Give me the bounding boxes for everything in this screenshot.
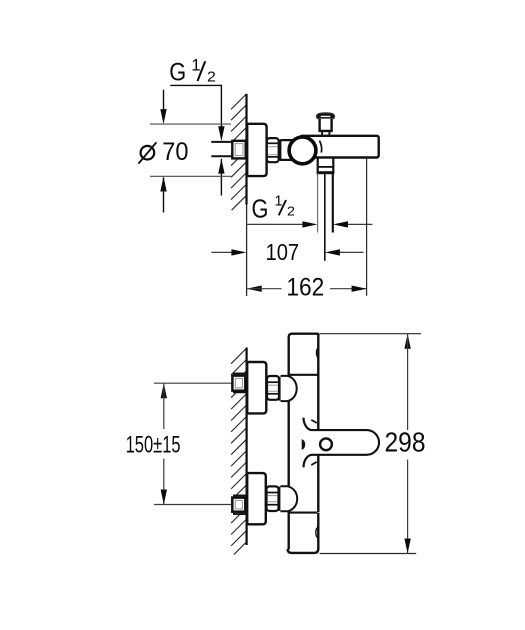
- lower block right edge: [288, 513, 319, 553]
- dimension line G1/2 (hose) right part with left arrow: [333, 221, 372, 227]
- top edge with rounded corners: [289, 334, 319, 338]
- extension line 150±15 lower (supply centerline): [154, 504, 232, 506]
- wall hatching (top view): [231, 94, 247, 210]
- lower union bell cover (bottom view): [278, 486, 297, 511]
- dimension line 162 with inside arrows: [247, 286, 367, 292]
- dimension 298 vertical with inside arrows: [404, 334, 410, 554]
- wall hatching (bottom view): [231, 348, 247, 554]
- right edge upper (to spout top fillet): [317, 334, 319, 430]
- washer between nut and body (top view): [279, 140, 281, 161]
- dimension line G1/2 (hose) left part with right arrow: [247, 221, 318, 227]
- diverter knob cap (top view): [316, 113, 334, 119]
- dimension line 107 left arrow: [211, 249, 246, 255]
- svg-text:107: 107: [266, 239, 300, 265]
- upper escutcheon flange (bottom view): [247, 362, 266, 413]
- label G1/2 (top) text: [169, 55, 216, 86]
- dimension G1/2 (top) leader: horizontal line and right vertical with down arrow: [170, 85, 224, 141]
- extension line from hose nut left edge: [317, 173, 319, 232]
- lower union nut (bottom view): [267, 486, 279, 511]
- upper wall socket square (bottom view): [232, 374, 246, 393]
- svg-text:150±15: 150±15: [126, 431, 181, 458]
- spout mouth circle (bottom view): [320, 438, 332, 450]
- dimension Ø70 down-arrow (shared vertical): [160, 90, 166, 124]
- dimension Ø70 up-arrow: [160, 177, 166, 213]
- shower hose nut below body (top view): [318, 158, 334, 174]
- escutcheon flange (top view): [247, 124, 266, 176]
- svg-text:1: 1: [275, 194, 283, 210]
- svg-text:70: 70: [162, 138, 188, 166]
- extension line body top (298 dim): [320, 333, 422, 335]
- spout top fillet arc (bottom view): [304, 418, 312, 431]
- right edge lower (below spout to lower block): [317, 455, 319, 512]
- upper union bell cover (bottom view): [279, 376, 297, 401]
- svg-text:298: 298: [385, 427, 426, 458]
- label Ø70 text: [138, 138, 188, 166]
- wall face line (bottom view): [246, 348, 248, 546]
- small arc detail right of circle (top view): [319, 141, 321, 153]
- dimension G1/2 (top) bottom up-arrow to pipe underside: [218, 159, 224, 196]
- left edge: [288, 337, 290, 550]
- shower hose pipe lines below nut (top view): [324, 173, 326, 260]
- upper union nut (bottom view): [267, 376, 279, 400]
- lower escutcheon flange (bottom view): [247, 473, 266, 524]
- thermostat cartridge circle (top view): [289, 137, 316, 164]
- lower wall socket square (bottom view): [232, 496, 246, 515]
- svg-text:G: G: [169, 58, 186, 86]
- body column (bottom view): [288, 334, 319, 553]
- wall face line (top view) extending down as dim extension: [245, 94, 247, 205]
- lower block top line: [288, 512, 317, 514]
- extension line from spout mouth (top view): [366, 158, 368, 296]
- supply pipe stub (top view): [211, 142, 233, 156]
- spout bottom fillet arc (bottom view): [304, 455, 312, 468]
- extension line body bottom (298 dim): [320, 553, 417, 555]
- svg-text:2: 2: [207, 70, 216, 86]
- diverter knob stem (top view): [320, 119, 332, 135]
- connection nut (top view): [267, 138, 279, 162]
- extension line Ø70 top edge: [150, 123, 231, 125]
- mixer body bar (top view): [300, 136, 379, 158]
- dimension 150±15 vertical with inside arrows: [161, 383, 167, 504]
- svg-text:G: G: [252, 193, 269, 223]
- extension line Ø70 bottom edge: [150, 175, 231, 177]
- label G1/2 (hose) text: [252, 193, 295, 223]
- extension line 150±15 upper (supply centerline): [154, 382, 232, 384]
- svg-text:162: 162: [286, 273, 324, 301]
- temperature mark half-dot (bottom view): [302, 439, 306, 450]
- spout bottom tick: [311, 462, 317, 465]
- spout profile tongue (bottom view): [311, 430, 379, 455]
- svg-text:1: 1: [191, 55, 200, 74]
- upper check-valve bump arc (bottom view): [316, 347, 318, 358]
- connector piece (top view): [280, 140, 295, 160]
- spout top tick: [311, 420, 317, 423]
- svg-text:2: 2: [287, 203, 295, 218]
- wall socket square (top view): [232, 141, 245, 159]
- cartridge parting line: [288, 374, 318, 376]
- dimension line 107 right arrow: [325, 249, 364, 255]
- lower check-valve bump arc (bottom view): [316, 527, 318, 538]
